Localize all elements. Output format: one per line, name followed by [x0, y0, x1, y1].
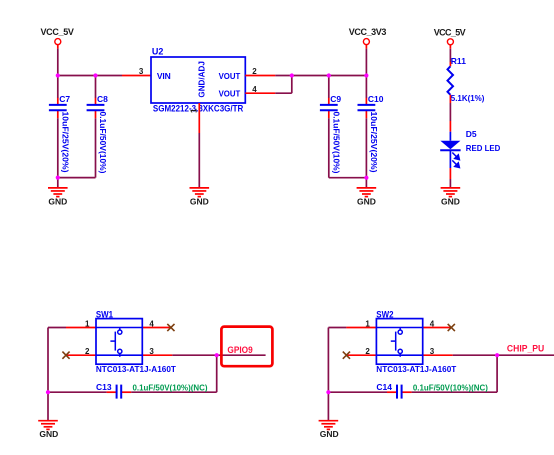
svg-text:VOUT: VOUT: [219, 88, 241, 98]
svg-text:C9: C9: [330, 94, 341, 104]
svg-text:GND: GND: [48, 196, 67, 206]
svg-text:4: 4: [252, 85, 257, 94]
svg-text:C14: C14: [376, 382, 392, 392]
svg-text:0.1uF/50V(10%): 0.1uF/50V(10%): [331, 112, 341, 174]
svg-text:RED LED: RED LED: [466, 143, 501, 153]
svg-text:VCC_5V: VCC_5V: [41, 27, 74, 37]
svg-text:SW1: SW1: [96, 310, 113, 320]
svg-text:10uF/25V(20%): 10uF/25V(20%): [369, 112, 379, 173]
svg-text:C10: C10: [368, 94, 384, 104]
svg-text:4: 4: [149, 319, 154, 328]
svg-text:5.1K(1%): 5.1K(1%): [451, 93, 485, 103]
svg-text:SW2: SW2: [376, 310, 393, 320]
svg-text:GND/ADJ: GND/ADJ: [197, 61, 207, 98]
svg-text:GND: GND: [39, 429, 58, 439]
svg-text:GND: GND: [441, 196, 460, 206]
svg-text:0.1uF/50V(10%)(NC): 0.1uF/50V(10%)(NC): [133, 382, 208, 392]
svg-text:GND: GND: [357, 196, 376, 206]
svg-text:2: 2: [365, 347, 370, 356]
svg-text:GND: GND: [190, 196, 209, 206]
svg-text:VIN: VIN: [157, 71, 171, 81]
svg-text:U2: U2: [152, 47, 164, 57]
svg-text:3: 3: [139, 67, 144, 76]
svg-text:GPIO9: GPIO9: [227, 345, 252, 355]
svg-text:0.1uF/50V(10%)(NC): 0.1uF/50V(10%)(NC): [413, 382, 488, 392]
svg-text:3: 3: [149, 347, 154, 356]
svg-text:4: 4: [430, 319, 435, 328]
svg-text:CHIP_PU: CHIP_PU: [507, 343, 544, 353]
svg-text:C8: C8: [97, 94, 108, 104]
svg-text:1: 1: [85, 319, 90, 328]
svg-text:NTC013-AT1J-A160T: NTC013-AT1J-A160T: [96, 364, 177, 374]
svg-text:D5: D5: [466, 129, 477, 139]
svg-text:3: 3: [430, 347, 435, 356]
svg-text:VOUT: VOUT: [219, 71, 241, 81]
svg-text:VCC_5V: VCC_5V: [434, 27, 466, 37]
svg-text:NTC013-AT1J-A160T: NTC013-AT1J-A160T: [376, 364, 457, 374]
svg-text:C7: C7: [59, 94, 70, 104]
svg-text:R11: R11: [451, 56, 466, 66]
svg-text:1: 1: [190, 108, 199, 113]
svg-text:2: 2: [85, 347, 90, 356]
svg-text:GND: GND: [320, 429, 339, 439]
svg-text:C13: C13: [96, 382, 112, 392]
svg-text:2: 2: [252, 67, 257, 76]
svg-text:0.1uF/50V(10%): 0.1uF/50V(10%): [98, 112, 108, 174]
svg-text:10uF/25V(20%): 10uF/25V(20%): [60, 112, 70, 173]
svg-text:1: 1: [365, 319, 370, 328]
svg-text:VCC_3V3: VCC_3V3: [349, 27, 387, 37]
